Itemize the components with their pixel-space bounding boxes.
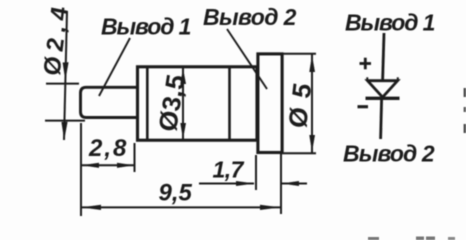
dimension 2,8: right arrow xyxy=(117,163,134,168)
svg-text:Ø3,5: Ø3,5 xyxy=(152,75,191,132)
dimension Ø2,4: upper arrow (points down to top ext line) xyxy=(63,62,69,80)
dimension Ø2,4: lower arrow (hangs below bottom ext line) xyxy=(61,122,67,140)
svg-text:1,7: 1,7 xyxy=(213,157,245,183)
diode VD triangle (anode) xyxy=(368,81,398,98)
wire cathode (bottom) xyxy=(381,99,382,139)
clipped text fragment right edge 3 xyxy=(464,124,466,133)
flange outline (Ø5 section) xyxy=(258,54,282,153)
body internal line left collar xyxy=(146,67,149,140)
dimension 1,7: right tail with arrow pointing left xyxy=(282,183,307,185)
leader line from Вывод 2 to flange xyxy=(227,29,267,89)
body outline (Ø3,5 section) xyxy=(138,67,258,140)
svg-text:9,5: 9,5 xyxy=(159,180,193,207)
lead (pin, Вывод 1) outline xyxy=(81,87,138,117)
clipped text fragment bottom 4 xyxy=(448,237,455,240)
svg-text:Вывод 1: Вывод 1 xyxy=(345,10,435,36)
diode cathode bar xyxy=(366,97,400,100)
dimension Ø5: top arrow xyxy=(309,55,315,72)
dimension 1,7: left tail with arrow pointing right xyxy=(199,183,254,185)
svg-text:2,8: 2,8 xyxy=(88,135,128,162)
dimension 9,5: dimension line xyxy=(81,206,281,208)
svg-text:Вывод 2: Вывод 2 xyxy=(203,4,297,30)
clipped text fragment bottom 2 xyxy=(416,237,424,240)
wire anode (top) xyxy=(383,33,384,81)
extension line at lead/body junction (x=134.5) xyxy=(134,143,136,172)
dimension Ø5: dimension line vertical xyxy=(311,55,313,153)
triangle corner overshoot ticks xyxy=(366,77,368,81)
dimension Ø5: extension line top xyxy=(281,53,316,55)
extension line left (x=81, for 2,8 and 9,5) xyxy=(80,123,82,216)
clipped text fragment right edge 1 xyxy=(464,88,466,97)
dimension 9,5: left arrow xyxy=(82,205,102,210)
clipped text fragment bottom 3 xyxy=(426,237,435,240)
dimension Ø3,5: dimension line vertical inside body xyxy=(182,68,184,139)
dimension Ø3,5: top arrow xyxy=(180,68,186,84)
svg-text:Вывод 2: Вывод 2 xyxy=(343,141,435,167)
plus sign xyxy=(360,62,372,65)
dimension Ø2,4: extension line bottom xyxy=(45,120,85,122)
svg-text:Вывод 1: Вывод 1 xyxy=(101,14,191,40)
svg-text:Ø5: Ø5 xyxy=(282,74,318,128)
extension line below flange right edge (x=280.5, for 1,7 and 9,5) xyxy=(280,153,282,214)
dimension 2,8: dimension line xyxy=(81,164,135,166)
dimension Ø5: extension line bottom xyxy=(281,152,316,154)
minus sign xyxy=(358,105,369,108)
svg-text:Ø2,4: Ø2,4 xyxy=(39,1,75,75)
dimension Ø2,4: dimension line vertical xyxy=(64,11,67,140)
body internal line right section xyxy=(228,67,231,140)
dimension Ø2,4: extension line top xyxy=(46,83,79,85)
extension line below flange left edge (x=255.5, for 1,7) xyxy=(255,155,257,190)
dimension 9,5: right arrow xyxy=(260,205,280,210)
dimension Ø5: bottom arrow xyxy=(309,135,315,152)
clipped text fragment bottom 1 xyxy=(368,237,379,240)
leader line from Вывод 1 to lead xyxy=(99,38,130,96)
dimension Ø3,5: bottom arrow xyxy=(180,123,186,139)
dimension 2,8: left arrow xyxy=(82,163,100,168)
clipped text fragment right edge 2 xyxy=(464,107,466,112)
